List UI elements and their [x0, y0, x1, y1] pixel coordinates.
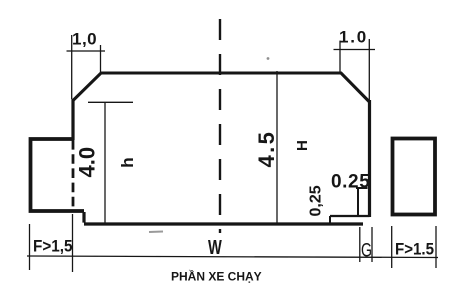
svg-text:PHẦN XE CHẠY: PHẦN XE CHẠY	[171, 269, 262, 284]
svg-text:1,0: 1,0	[72, 30, 97, 49]
svg-text:4.0: 4.0	[75, 147, 100, 178]
svg-text:G: G	[361, 241, 372, 262]
svg-text:F>1.5: F>1.5	[395, 240, 434, 259]
svg-text:0,25: 0,25	[308, 185, 325, 216]
svg-text:F>1,5: F>1,5	[33, 237, 73, 256]
svg-text:W: W	[208, 237, 222, 259]
svg-text:h: h	[118, 157, 137, 167]
svg-text:4.5: 4.5	[254, 130, 279, 168]
svg-text:0.25: 0.25	[331, 172, 370, 193]
svg-text:H: H	[294, 140, 311, 151]
svg-text:1.0: 1.0	[339, 28, 368, 47]
